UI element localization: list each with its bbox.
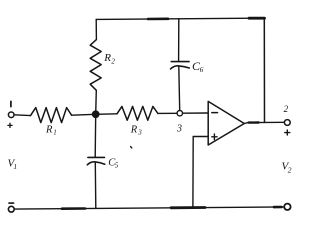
node 3 open circle (177, 111, 182, 116)
wire top-right corner thick segment (249, 17, 265, 20)
svg-text:3: 3 (137, 128, 142, 136)
wire op-amp output (244, 122, 284, 123)
svg-text:1: 1 (53, 129, 57, 137)
wire bottom rail thick segment middle (171, 206, 205, 209)
wire bottom rail thick segment right (274, 206, 282, 209)
wire C5 bottom stub to ground rail (94, 162, 97, 208)
wire op-amp non-inverting input to ground drop (193, 137, 208, 208)
svg-text:R: R (130, 124, 138, 135)
terminal bottom-left circle (8, 206, 14, 212)
svg-text:R: R (45, 125, 53, 136)
wire C6 bottom stub to node 3 (178, 66, 181, 110)
speck artifact (131, 147, 132, 149)
wire node 3 to op-amp inverting input (183, 112, 208, 114)
wire top rail thick segment (148, 18, 168, 21)
op-amp U1 triangle (208, 101, 244, 145)
svg-text:6: 6 (200, 65, 204, 74)
node A junction dot (93, 111, 99, 117)
wire output thick segment (249, 121, 259, 123)
label 1 tick above input terminal (10, 101, 12, 106)
resistor R3 (117, 106, 158, 120)
wire right vertical (top rail to output) (263, 18, 265, 122)
svg-text:2: 2 (288, 166, 292, 175)
svg-text:2: 2 (284, 104, 289, 114)
resistor R2 (90, 40, 101, 91)
wire R3 to node 3 (158, 112, 177, 114)
wire C5 top stub (node A down) (94, 114, 97, 157)
wire top rail (96, 18, 264, 19)
wire R2 top stub (95, 19, 97, 39)
wire bottom rail thick segment left (62, 207, 85, 210)
plus sign under output terminal (285, 132, 290, 134)
capacitor C6 curved bottom plate (171, 66, 190, 69)
minus bar above bottom-left terminal (9, 202, 14, 204)
wire R2 bottom stub to node A (95, 90, 98, 114)
plus sign under input terminal (8, 124, 12, 126)
svg-text:3: 3 (176, 123, 182, 134)
terminal 1 input circle (8, 112, 14, 118)
capacitor C6 top plate (171, 61, 189, 63)
resistor R1 (31, 108, 72, 123)
wire R1 to node A (72, 113, 96, 116)
terminal 2 output circle (284, 120, 290, 126)
op-amp inverting input minus sign (212, 112, 218, 114)
svg-text:5: 5 (115, 162, 119, 170)
terminal bottom-right circle (284, 204, 290, 210)
wire node A to R3 (96, 113, 117, 116)
op-amp non-inverting input plus sign (212, 136, 217, 138)
svg-text:2: 2 (111, 57, 115, 65)
svg-text:1: 1 (13, 162, 17, 171)
capacitor C5 curved bottom plate (87, 162, 105, 165)
wire bottom ground rail (14, 207, 284, 209)
wire C6 top stub (top rail down) (178, 19, 180, 61)
capacitor C5 top plate (88, 156, 105, 158)
wire input terminal to R1 (14, 114, 31, 117)
svg-text:R: R (103, 52, 111, 64)
